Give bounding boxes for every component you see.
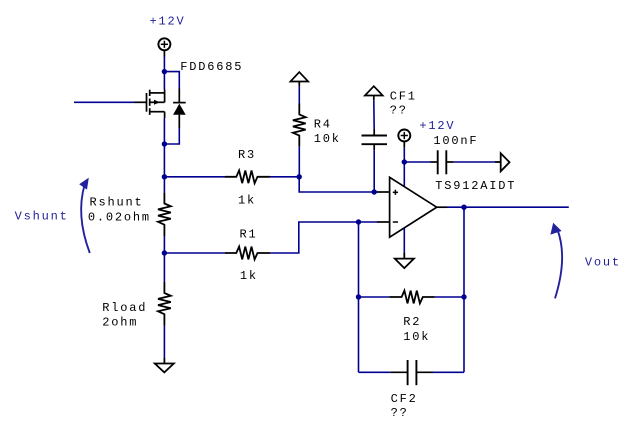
svg-text:??: ?? bbox=[391, 406, 409, 420]
node B junction dot bbox=[162, 141, 167, 146]
wire: R3 to node E bbox=[270, 176, 299, 178]
wire: power symbol to node A bbox=[163, 57, 165, 72]
svg-text:10k: 10k bbox=[314, 132, 341, 146]
transistor Q1 body arrow bbox=[154, 100, 160, 105]
wire: diode bottom to node B bbox=[164, 128, 179, 144]
wire: CF2 left wire bbox=[359, 371, 391, 373]
svg-text:CF2: CF2 bbox=[391, 392, 418, 406]
power arrow (above R4) bbox=[290, 72, 308, 86]
ground (below Rload) bbox=[155, 358, 174, 372]
power arrow (above CF1) bbox=[365, 86, 383, 100]
wire: CF1 to node F bbox=[373, 150, 375, 192]
node C junction dot (top of Rshunt / R3 tap) bbox=[162, 174, 167, 179]
svg-text:R1: R1 bbox=[240, 228, 258, 242]
wire: 100nF to ground arrow bbox=[454, 161, 495, 163]
wire: node C to R3 bbox=[164, 176, 225, 178]
wire: R2 right lead wire bbox=[435, 296, 464, 298]
wire: CF2 right wire bbox=[433, 371, 464, 373]
wire: power symbol to node G bbox=[403, 148, 405, 162]
wire: MOSFET drain down to node B bbox=[163, 118, 165, 144]
wire: R2 left lead wire bbox=[359, 296, 390, 298]
resistor R4 (vertical) bbox=[293, 104, 306, 147]
svg-text:CF1: CF1 bbox=[390, 90, 417, 104]
wire: feedback right vertical bbox=[463, 207, 465, 372]
wire: node B to node C bbox=[163, 144, 165, 193]
svg-text:R2: R2 bbox=[403, 315, 421, 329]
svg-text:100nF: 100nF bbox=[433, 134, 478, 148]
svg-text:R4: R4 bbox=[314, 117, 332, 131]
wire: node D down to Rload bbox=[163, 253, 165, 282]
transistor Q1 FDD6685 P-MOSFET symbol bbox=[135, 90, 165, 119]
resistor Rload (vertical) bbox=[158, 282, 171, 326]
wire: node A down to MOSFET source bbox=[163, 72, 165, 90]
ground (right-pointing, after 100nF) bbox=[495, 153, 510, 171]
capacitor CF2 bbox=[391, 360, 433, 385]
Vshunt arrow bbox=[81, 185, 90, 254]
wire: node E down and right to op-amp + input bbox=[299, 177, 377, 192]
svg-text:+12V: +12V bbox=[419, 119, 455, 133]
svg-text:2ohm: 2ohm bbox=[102, 315, 138, 329]
op-amp U1 TS912AIDT bbox=[377, 177, 447, 237]
resistor R2 (horizontal) bbox=[389, 291, 434, 304]
node F junction dot (CF1 tap on + line) bbox=[372, 189, 377, 194]
svg-text:R3: R3 bbox=[238, 148, 256, 162]
wire: feedback left vertical bbox=[358, 222, 360, 372]
svg-text:+12V: +12V bbox=[150, 15, 186, 29]
node A junction dot (top of MOSFET) bbox=[162, 69, 167, 74]
body diode D1 bbox=[173, 89, 186, 129]
node D junction dot (bottom of Rshunt / R1 tap) bbox=[162, 250, 167, 255]
wire: power arrow to R4 bbox=[298, 86, 300, 103]
svg-text:FDD6685: FDD6685 bbox=[180, 60, 243, 74]
wire: op-amp output bbox=[447, 206, 569, 208]
svg-text:10k: 10k bbox=[403, 330, 430, 344]
node J junction dot (output) bbox=[461, 205, 466, 210]
node H junction dot (feedback tap on - line) bbox=[356, 219, 361, 224]
wire: R1 up to op-amp - input bbox=[270, 222, 378, 253]
svg-text:Rshunt: Rshunt bbox=[90, 195, 144, 209]
resistor R3 (horizontal) bbox=[225, 170, 270, 183]
wire: R1 from node D bbox=[164, 252, 225, 254]
power symbol +12V (top, circle-plus) bbox=[158, 38, 170, 56]
node L junction dot (R2 right) bbox=[461, 294, 466, 299]
wire: Rshunt bottom to node D bbox=[163, 236, 165, 253]
svg-text:1k: 1k bbox=[240, 269, 258, 283]
svg-text:??: ?? bbox=[390, 103, 408, 117]
wire: node G to 100nF bbox=[404, 161, 430, 163]
wire: power arrow to CF1 bbox=[373, 100, 375, 129]
node K junction dot (R2 left) bbox=[356, 294, 361, 299]
capacitor CF1 bbox=[362, 130, 388, 151]
svg-text:Vshunt: Vshunt bbox=[15, 210, 69, 224]
node E junction dot (R3/R4 junction) bbox=[297, 174, 302, 179]
power symbol +12V (op-amp, circle-plus) bbox=[398, 130, 410, 148]
svg-text:0.02ohm: 0.02ohm bbox=[88, 210, 151, 224]
resistor R1 (horizontal) bbox=[225, 247, 270, 260]
node G junction dot (V+ / 100nF tap) bbox=[402, 159, 407, 164]
wire: node G to op-amp V+ pin bbox=[403, 162, 405, 187]
svg-text:1k: 1k bbox=[238, 193, 256, 207]
capacitor C2 100nF bbox=[431, 150, 454, 174]
resistor Rshunt (vertical) bbox=[158, 193, 171, 236]
ground (below op-amp) bbox=[395, 252, 414, 268]
gate wire bbox=[74, 101, 135, 103]
wire: Rload to ground bbox=[163, 326, 165, 359]
wire: node A to body diode top bbox=[164, 72, 179, 89]
svg-text:TS912AIDT: TS912AIDT bbox=[435, 179, 516, 193]
svg-text:Vout: Vout bbox=[585, 255, 621, 269]
wire: op-amp V- pin to ground bbox=[403, 228, 405, 253]
Vout arrow bbox=[555, 230, 562, 298]
wire: R4 to node E bbox=[298, 147, 300, 177]
svg-text:Rload: Rload bbox=[102, 301, 147, 315]
